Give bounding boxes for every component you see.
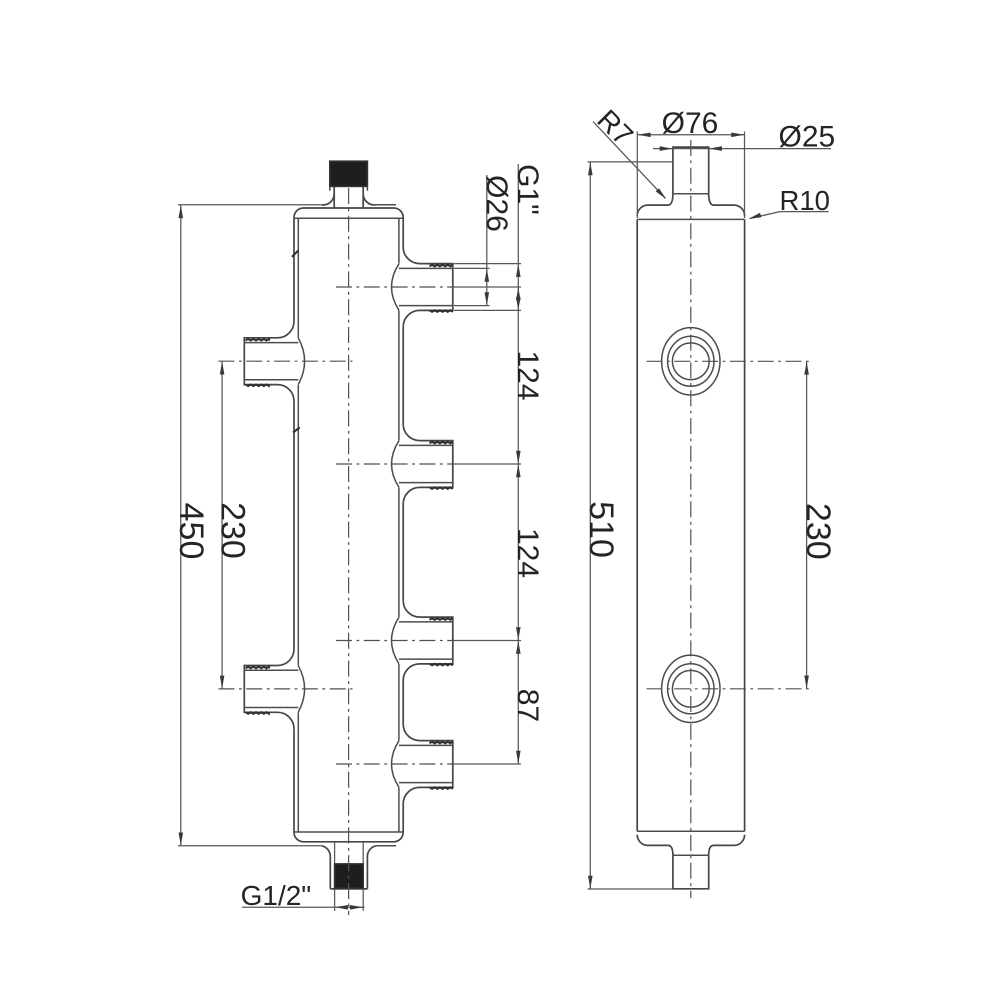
dimension 510: extension lines (588, 162, 673, 889)
left view: body left wall (inner) (297, 218, 299, 832)
dimension 124 (first): text (511, 350, 544, 400)
right view: top weld seam (637, 218, 744, 220)
svg-text:450: 450 (172, 503, 210, 560)
dimension Ø26: dimension line (485, 175, 490, 306)
dimension Ø76: extension lines (637, 132, 744, 219)
left view: top plug cap (black) (330, 161, 368, 191)
right view: port face circles 2 (662, 655, 720, 722)
svg-text:G1": G1" (511, 164, 544, 215)
left view: top weld seam (294, 217, 403, 219)
left view: right port 4 centerline (336, 763, 521, 765)
dimension 124 (second): arrows (516, 464, 521, 640)
left view: bottom weld seam (294, 831, 403, 833)
dimension G1: arrows (516, 264, 521, 310)
right view: bottom nipple (673, 855, 709, 889)
dimension 450: dimension line (179, 205, 184, 846)
dimension 230 (right): dimension line (804, 361, 809, 689)
svg-text:Ø25: Ø25 (779, 120, 836, 153)
label R7: leader (593, 122, 666, 200)
dimension 230 (left): text (214, 502, 252, 559)
dimension 450: text (172, 503, 210, 560)
left view: bottom head crown lines (376, 845, 396, 847)
left view: left port 1 centerline (219, 360, 353, 362)
svg-text:R10: R10 (780, 185, 830, 216)
right view: port 1 horizontal centerline (647, 360, 811, 362)
left view: body right wall (inner) (398, 218, 400, 832)
left view: top neck walls (334, 186, 363, 208)
right view: top dome outline (637, 194, 744, 216)
left view: left port 2 (G1) (244, 649, 304, 729)
right view: bottom weld seam (637, 830, 744, 832)
left view: body top line with corners (294, 208, 403, 218)
right view: bottom dome outline (637, 835, 744, 856)
right view: body walls (637, 219, 744, 831)
dimension 124 (second): text (511, 528, 544, 578)
left view: body bottom line with corners (294, 832, 403, 842)
dimension 230 (right): text (799, 503, 837, 560)
left view: top neck flare fillets (322, 194, 376, 205)
dimension Ø26: text (480, 175, 513, 232)
left view: right port 1 (G1) (392, 247, 453, 327)
svg-text:R7: R7 (591, 104, 639, 152)
left view: right port 4 (G1) (392, 724, 453, 804)
left view: right port 1 centerline (336, 286, 521, 288)
left view: right port 3 centerline (336, 640, 521, 642)
left view: bottom plug cap (black) (335, 864, 364, 888)
svg-text:87: 87 (511, 689, 544, 722)
left view: vertical centerline (348, 188, 350, 915)
dimension G1: extension lines (454, 264, 521, 311)
label R10: text (780, 185, 830, 216)
dimension 124 (first): arrows (516, 287, 521, 463)
left view: bottom nipple thread lines (335, 842, 364, 911)
dimension chain line (G1, 124, 124, 87) (517, 164, 519, 764)
svg-text:G1/2": G1/2" (241, 880, 312, 911)
left view: weld tick (293, 427, 300, 432)
svg-text:230: 230 (214, 502, 252, 559)
dimension 230 (left): dimension line (220, 361, 225, 689)
dimension G1/2: dimension line (242, 905, 365, 910)
left view: body left wall (outer) (293, 218, 295, 833)
label R10: leader (748, 212, 828, 219)
dimension Ø25: text (779, 120, 836, 153)
svg-text:Ø76: Ø76 (662, 107, 719, 140)
dimension 87: arrows (516, 641, 521, 764)
svg-text:Ø26: Ø26 (480, 175, 513, 232)
svg-text:124: 124 (511, 528, 544, 578)
right view: port 2 horizontal centerline (647, 688, 811, 690)
dimension G1/2: text (241, 880, 312, 911)
left view: body right wall (outer) (402, 218, 404, 833)
left view: left port 2 centerline (219, 688, 353, 690)
label R7: text (591, 104, 639, 152)
left view: right port 2 (G1) (392, 424, 453, 504)
right view: port face circles 1 (662, 328, 720, 395)
svg-text:124: 124 (511, 350, 544, 400)
dimension Ø76: text (662, 107, 719, 140)
left view: right port 2 centerline (336, 463, 521, 465)
dimension Ø76: dimension line (637, 133, 744, 138)
dimension 450: extension lines (tangent to heads) (178, 205, 322, 846)
dimension Ø25: dimension line (653, 146, 831, 151)
dimension 510: dimension line (588, 162, 593, 889)
dimension G1: text (511, 164, 544, 215)
svg-text:510: 510 (582, 501, 620, 558)
left view: bottom neck flare fillets (322, 846, 376, 856)
svg-text:230: 230 (799, 503, 837, 560)
left view: top head crown lines (376, 204, 396, 206)
dimension Ø26: extension lines (454, 268, 490, 305)
left view: right port 3 (G1) (392, 601, 453, 681)
dimension 87: text (511, 689, 544, 722)
right view: top nipple (673, 147, 709, 194)
left view: left port 1 (G1) (244, 321, 304, 401)
dimension 510: text (582, 501, 620, 558)
right view: vertical centerline (690, 140, 692, 898)
left view: bottom neck outer walls (330, 856, 367, 889)
left view: weld tick (292, 250, 299, 256)
